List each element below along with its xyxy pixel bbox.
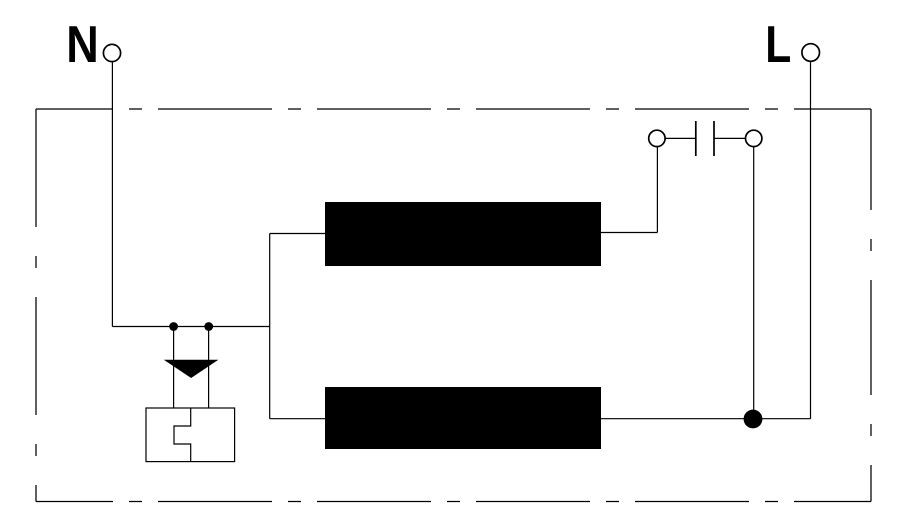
wire left branch vertical — [269, 234, 271, 419]
wire R1 right lead — [601, 232, 658, 234]
enclosure border right (dash-dot) — [870, 109, 872, 502]
thermal cutout contact step — [174, 408, 191, 462]
capacitor C1 right plate — [713, 121, 715, 156]
heating element R1 — [326, 203, 601, 266]
wire N vertical — [111, 62, 113, 327]
heating element R2 — [326, 388, 601, 449]
wire capacitor left vertical — [656, 147, 658, 233]
enclosure border left (dash-dot) — [35, 109, 37, 502]
wire capacitor right vertical — [753, 147, 755, 419]
capacitor left lead — [665, 137, 696, 139]
wire R2 right lead to L — [601, 418, 811, 420]
enclosure border bottom (dash-dot) — [36, 501, 871, 503]
capacitor terminal left circle — [649, 130, 665, 146]
svg-text:N: N — [66, 15, 99, 73]
terminal N circle — [103, 44, 120, 61]
junction dot L node — [744, 410, 763, 429]
wire junction B to thermal cutout — [208, 327, 210, 409]
wire R2 left lead — [270, 418, 326, 420]
wire L vertical — [810, 61, 812, 418]
thermal sensor arrow (filled triangle) — [164, 360, 219, 378]
enclosure border top (dash-dot) — [36, 108, 871, 110]
wire N node horizontal — [112, 326, 269, 328]
terminal L circle — [802, 44, 820, 62]
wire R1 left lead — [270, 233, 326, 235]
junction dot B — [204, 322, 213, 331]
capacitor right lead — [714, 137, 746, 139]
svg-text:L: L — [765, 15, 791, 73]
junction dot A — [169, 322, 178, 331]
thermal cutout body — [146, 408, 235, 462]
capacitor C1 left plate — [695, 121, 697, 156]
wire junction A to thermal cutout — [173, 327, 175, 409]
capacitor terminal right circle — [746, 130, 762, 146]
